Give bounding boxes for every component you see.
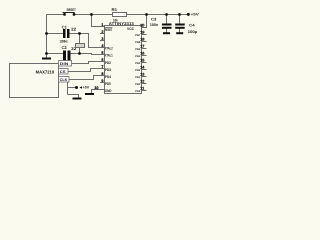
wire MAX V+ vertical	[67, 82, 69, 95]
svg-text:RESET: RESET	[67, 8, 77, 12]
svg-text:12: 12	[140, 80, 144, 84]
node junction pin1/rail	[90, 13, 93, 16]
ground pin10	[85, 93, 94, 95]
svg-text:22: 22	[71, 27, 77, 32]
svg-text:GND: GND	[105, 89, 112, 93]
port box CS	[59, 69, 69, 75]
svg-text:11: 11	[140, 87, 144, 91]
supply +5V top arrow blob	[187, 13, 190, 16]
node junction left/C1	[45, 32, 48, 35]
wire XTAL1 to pin 5	[80, 54, 105, 55]
svg-text:PB0: PB0	[135, 83, 141, 86]
wire reset to pin 1	[92, 15, 105, 27]
wire pin 3 stub	[100, 40, 105, 42]
svg-text:6: 6	[101, 58, 103, 62]
svg-text:5: 5	[101, 51, 103, 55]
capacitor C2 plate left	[63, 51, 66, 61]
svg-text:20: 20	[140, 24, 144, 28]
svg-text:17: 17	[140, 45, 144, 49]
wire right pin stub 16	[142, 55, 147, 57]
wire right pin stub 18	[142, 41, 147, 43]
capacitor C1 plate right	[67, 29, 70, 38]
ground left	[42, 58, 51, 60]
ground C4	[176, 32, 183, 34]
crystal Q1	[76, 44, 85, 48]
svg-text:PB4: PB4	[135, 55, 141, 58]
svg-text:100µ: 100µ	[188, 30, 198, 34]
svg-text:RESET: RESET	[105, 28, 113, 32]
capacitor C1 plate left	[63, 29, 66, 38]
svg-text:2: 2	[101, 30, 103, 34]
wire pin 2 stub	[100, 33, 105, 35]
svg-text:13: 13	[140, 73, 144, 77]
svg-text:9: 9	[101, 79, 103, 83]
wire MAX ground run	[68, 95, 79, 98]
svg-text:CS: CS	[60, 70, 66, 74]
wire C2 row left	[47, 53, 64, 55]
svg-text:C3: C3	[151, 18, 156, 22]
resistor R1	[113, 13, 127, 17]
IC2 MAX7219 box	[10, 64, 59, 98]
supply +5V MAX arrow	[79, 86, 82, 89]
svg-text:PD6: PD6	[135, 90, 141, 93]
node junction C3/rail	[165, 13, 168, 16]
svg-text:PB2: PB2	[135, 69, 141, 72]
node junction VCC/rail	[145, 13, 148, 16]
switch S1 contact right	[73, 13, 76, 16]
node junction crystal bottom	[78, 52, 81, 55]
svg-text:R1: R1	[112, 7, 118, 12]
svg-text:XTAL2: XTAL2	[105, 46, 113, 50]
svg-text:PB6: PB6	[135, 41, 141, 44]
svg-text:PB7: PB7	[135, 34, 141, 37]
svg-text:+5V: +5V	[83, 86, 90, 90]
capacitor C4 plate top	[175, 24, 185, 26]
ground MAX	[73, 98, 82, 100]
svg-text:18: 18	[140, 38, 144, 42]
capacitor C3 plate top	[162, 24, 172, 26]
supply +5V MAX blob	[75, 86, 78, 89]
wire MAX +5V tee	[68, 87, 76, 89]
pin numbers right	[140, 24, 145, 91]
svg-text:15: 15	[140, 59, 144, 63]
svg-text:PB1: PB1	[135, 76, 141, 79]
svg-text:PB5: PB5	[135, 48, 141, 51]
port box CLK	[59, 77, 70, 83]
svg-text:100n: 100n	[150, 23, 159, 27]
svg-text:3: 3	[101, 37, 103, 41]
wire CS to pin 7	[68, 69, 105, 72]
svg-text:DIN: DIN	[60, 62, 69, 66]
capacitor C2 plate right	[68, 51, 71, 61]
switch S1 RESET bridge	[63, 12, 75, 14]
svg-text:8: 8	[101, 72, 103, 76]
port box DIN	[59, 61, 72, 67]
node junction left/C2	[45, 52, 48, 55]
wire right pin stub 15	[142, 62, 147, 64]
svg-text:PD5: PD5	[105, 82, 111, 86]
wire C4 vertical top	[179, 15, 181, 24]
svg-text:CLK: CLK	[60, 78, 68, 82]
wire pin 9 stub	[100, 82, 105, 84]
pin labels right PB7-PB0 PD6	[135, 34, 141, 93]
svg-text:C2: C2	[62, 45, 68, 50]
wire C4 vertical bottom	[179, 29, 181, 33]
wire C3 vertical bottom	[166, 29, 168, 33]
svg-text:XTAL1: XTAL1	[105, 53, 113, 57]
svg-text:12MHz: 12MHz	[60, 39, 68, 43]
wire C3 vertical top	[166, 15, 168, 24]
wire C1 row left	[47, 33, 64, 35]
wire right pin stub 14	[142, 69, 147, 71]
svg-text:10: 10	[94, 86, 98, 90]
svg-text:7: 7	[101, 65, 103, 69]
svg-text:PB3: PB3	[135, 62, 141, 65]
ground C3	[163, 32, 170, 34]
wire XTAL2 to pin 4	[80, 34, 105, 48]
wire right pin stub 11	[142, 90, 147, 92]
wire right pin stub 17	[142, 48, 147, 50]
svg-text:19: 19	[140, 31, 144, 35]
node junction C4/rail	[178, 13, 181, 16]
svg-text:PD2: PD2	[105, 61, 111, 65]
wire C1 row right	[70, 33, 80, 35]
wire top rail right of switch	[74, 14, 188, 16]
wire right pin stub 19	[142, 34, 147, 36]
capacitor C3 plate bottom	[162, 27, 172, 29]
wire crystal vertical bottom	[79, 48, 81, 54]
wire crystal vertical top	[79, 34, 81, 44]
svg-text:MAX7219: MAX7219	[36, 70, 55, 75]
wire top rail left segment	[47, 14, 64, 16]
node junction crystal top	[78, 32, 81, 35]
svg-text:16: 16	[140, 52, 144, 56]
wire DIN to pin 6	[72, 62, 105, 64]
svg-text:VCC: VCC	[127, 27, 134, 31]
pin numbers left	[94, 23, 104, 90]
wire C2 row right	[71, 53, 80, 55]
svg-text:+5V: +5V	[191, 13, 200, 17]
wire pin 10 GND to ground	[92, 90, 105, 94]
capacitor C4 plate bottom	[175, 27, 185, 29]
wire right pin stub 13	[142, 76, 147, 78]
svg-text:1: 1	[101, 23, 103, 27]
svg-text:C1: C1	[62, 25, 68, 30]
wire CLK to pin 8	[69, 76, 105, 80]
svg-text:PD4: PD4	[105, 75, 111, 79]
wire left ground vertical	[46, 15, 48, 58]
IC1 ATTINY2313 box	[105, 26, 142, 94]
svg-text:ATTINY2313: ATTINY2313	[109, 21, 135, 26]
svg-text:PD3: PD3	[105, 68, 111, 72]
wire VCC pin 20	[142, 15, 147, 28]
wire right pin stub 12	[142, 83, 147, 85]
switch S1 contact left	[63, 13, 66, 16]
